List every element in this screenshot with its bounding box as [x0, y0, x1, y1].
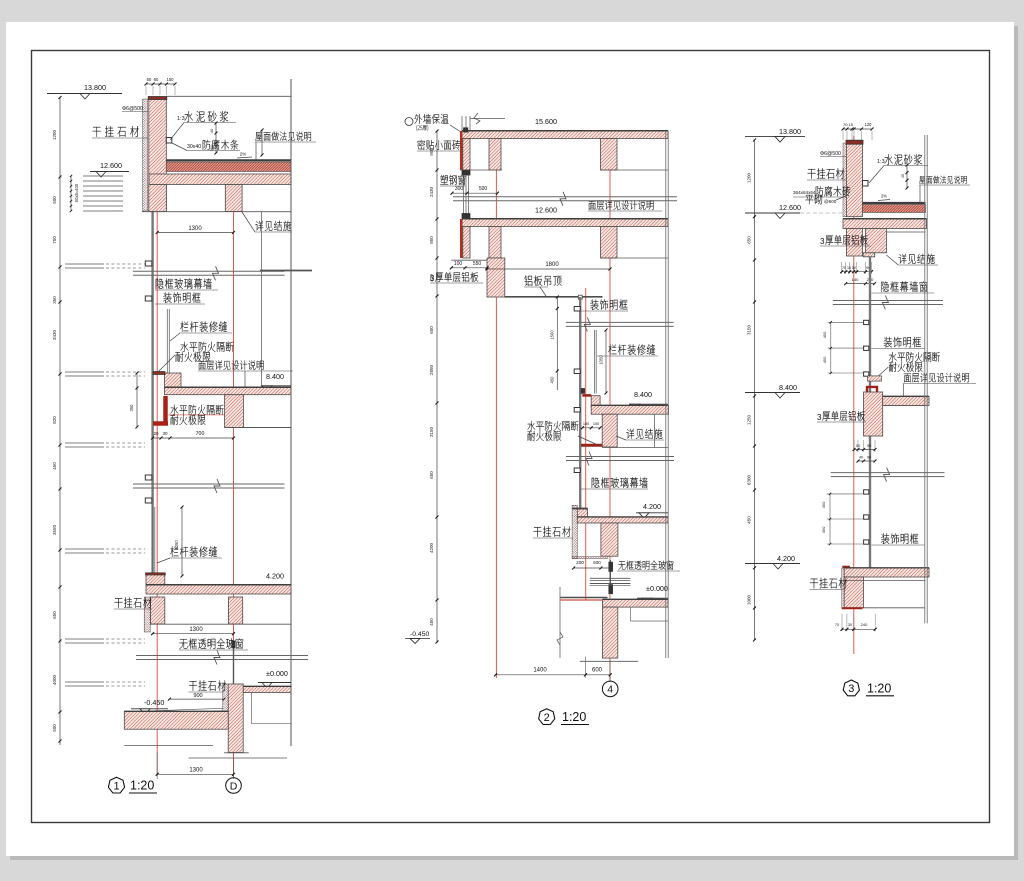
detail 2 window dims 200 600	[574, 567, 612, 569]
detail 2 break line lower	[566, 456, 674, 458]
svg-text:1800: 1800	[545, 262, 559, 268]
detail 2 mid wall left leaf	[463, 227, 470, 259]
svg-text:1300: 1300	[189, 768, 203, 774]
detail 1 roof slope mark	[237, 157, 252, 158]
svg-text:1: 1	[113, 780, 119, 792]
detail 2 right border double line	[665, 131, 667, 658]
detail 1 curtain wall mullion line	[151, 211, 153, 573]
svg-text:1200: 1200	[747, 172, 752, 183]
detail 2 upstand cap 4.200	[572, 508, 588, 510]
svg-text:450: 450	[821, 526, 826, 533]
detail 1 mullion brackets	[145, 261, 152, 266]
detail 2 title bubble 2	[539, 709, 555, 725]
detail 1 ground stone strip at column	[223, 684, 228, 711]
detail 1 roof downstand beam	[225, 185, 242, 212]
detail 1 interior floor recess lines	[250, 693, 252, 724]
svg-text:12.600: 12.600	[535, 206, 557, 215]
detail 3 label decorative frame lower	[881, 533, 889, 543]
detail 2 railing dim	[605, 330, 607, 393]
svg-text:600: 600	[593, 560, 601, 565]
detail 1 soil line under column	[224, 752, 249, 754]
detail 2 exterior red line	[560, 599, 602, 601]
detail 1 mid floor upstand	[165, 373, 182, 388]
detail 2 mullion base joint	[581, 388, 585, 393]
detail 2 bracket dim line	[556, 297, 558, 390]
svg-text:90: 90	[867, 456, 871, 460]
detail 2 bottom dim 1400 600	[585, 657, 587, 678]
detail 3 roof slope mark	[878, 200, 890, 201]
detail 3 label horizontal fire barrier	[889, 352, 897, 362]
detail 3 underside line 8.400	[883, 405, 926, 407]
detail 3 parapet top dims	[843, 128, 872, 130]
svg-text:550: 550	[473, 261, 482, 267]
detail 1 mid floor fire barrier red angle	[163, 396, 168, 425]
detail 1 mid floor downstand beam	[225, 395, 244, 428]
detail 2 upstand 4.200	[577, 509, 587, 518]
detail 2 red axis 1	[495, 131, 497, 678]
svg-text:300: 300	[455, 186, 464, 192]
detail 1 label horizontal fire barrier upper	[180, 342, 188, 352]
detail 2 label railing joint	[608, 344, 616, 354]
detail 3 beam bottom step	[863, 253, 875, 257]
detail 3 fire barrier mark	[868, 376, 882, 381]
detail 2 upstand cap red	[582, 394, 591, 397]
detail 2 soil line	[580, 660, 638, 662]
svg-text:4000: 4000	[52, 674, 57, 685]
detail 2 wall above roof break	[461, 116, 463, 131]
detail 3 stone block 4.200	[844, 577, 863, 608]
detail 3 edge beam 8.400	[864, 392, 883, 436]
detail 1 exterior ground slab	[124, 712, 228, 730]
detail 3 red axis	[853, 136, 855, 654]
detail 2 interior floor step lines	[590, 577, 631, 579]
detail 3 parapet wall	[846, 141, 862, 217]
svg-text:60: 60	[147, 77, 152, 82]
svg-text:@600: @600	[824, 199, 837, 204]
detail 2 label exterior wall insulation	[405, 118, 413, 126]
detail 2 ground column	[602, 607, 617, 658]
detail 2 roof wall tie square	[463, 128, 468, 133]
svg-text:1500: 1500	[550, 330, 555, 340]
detail 2 exterior boundary vline	[559, 587, 561, 658]
detail 2 slab 4.200	[577, 517, 668, 523]
detail 2 window frame upper	[463, 170, 465, 219]
detail 1 title bubble 1	[108, 777, 124, 793]
detail 2 label aluminum ceiling	[524, 275, 532, 285]
detail 2 interior wall line 8.400	[653, 414, 655, 447]
detail 3 curtain wall mullion	[869, 256, 871, 568]
svg-text:3150: 3150	[429, 426, 434, 437]
detail 1 ceiling line under roof	[142, 211, 291, 213]
detail 1 lower floor slab	[146, 585, 291, 594]
detail 1 label floor finish see design notes	[199, 361, 206, 370]
detail 3 label flat laid	[806, 195, 814, 204]
detail 2 beam 8.400	[602, 414, 617, 447]
detail 1 mid floor slab	[165, 388, 292, 395]
detail 1 lower ceiling line	[151, 623, 292, 625]
detail 2 grid bubble 4	[602, 681, 618, 697]
detail 3 dims below stone	[841, 614, 843, 632]
svg-text:900: 900	[193, 693, 202, 699]
svg-text:1050: 1050	[599, 355, 604, 365]
detail 3 label dry hung stone lower	[810, 579, 818, 589]
svg-text:650: 650	[429, 471, 434, 479]
svg-text:650: 650	[52, 611, 57, 619]
detail 2 dim 1800	[487, 268, 610, 270]
detail 1 mid floor underside line	[225, 427, 291, 429]
svg-text:450: 450	[52, 462, 57, 470]
svg-text:3550: 3550	[52, 524, 57, 535]
detail 3 parapet stone strip	[843, 143, 846, 217]
svg-text:2%: 2%	[240, 152, 247, 157]
detail 3 mullion brackets lower	[864, 490, 869, 494]
detail 2 upper beam	[601, 139, 618, 171]
detail 1 railing dim 1050	[181, 507, 183, 576]
detail 2 mid ceiling lines	[451, 259, 503, 261]
detail 2 break line mid	[566, 321, 674, 323]
detail 1 small vertical dim at cap	[215, 123, 217, 153]
detail 2 label hidden frame curtain wall	[592, 477, 600, 487]
detail 3 dims below beam row1	[841, 262, 843, 274]
detail 1 break line mid	[133, 483, 285, 485]
detail 2 mullion brackets	[574, 307, 580, 312]
detail 2 floor slab 12.600	[462, 219, 668, 227]
detail 3 underside line 4.200	[844, 580, 925, 582]
svg-text:450: 450	[822, 356, 827, 363]
svg-text:40: 40	[209, 128, 214, 133]
detail 2 dims 100 100 at barrier	[582, 427, 600, 429]
svg-text:8.400: 8.400	[266, 372, 284, 381]
svg-text:30: 30	[162, 431, 168, 436]
detail 1 label decorative frame upper	[163, 292, 171, 302]
detail 2 exterior grade line	[560, 597, 607, 599]
svg-text:650: 650	[747, 236, 752, 244]
svg-text:3: 3	[848, 683, 854, 695]
detail 1 lower wall stub	[151, 597, 165, 624]
svg-text:50: 50	[856, 444, 860, 448]
detail 1 glass window line	[233, 640, 235, 700]
svg-text:3150: 3150	[747, 324, 752, 335]
detail 1 exterior slope lines	[142, 708, 223, 711]
detail 3 label decorative frame	[884, 337, 892, 347]
svg-text:450: 450	[550, 376, 555, 384]
detail 2 stone edge 4.200	[572, 505, 577, 558]
svg-text:4.200: 4.200	[777, 554, 795, 563]
detail 3 slab 4.200	[844, 568, 929, 577]
detail 1 red axis B	[233, 174, 235, 777]
detail 2 label frameless glass window	[618, 561, 625, 569]
detail 3 bottom line to border	[863, 607, 926, 609]
svg-text:820: 820	[52, 416, 57, 424]
svg-text:650: 650	[429, 326, 434, 334]
detail 1 louver dim stack	[70, 176, 72, 211]
detail 1 mid floor upstand cap	[153, 372, 165, 375]
detail 2 left dim chain	[436, 131, 438, 643]
detail 3 roof insulation band	[863, 205, 926, 213]
detail 1 parapet top dims	[146, 83, 175, 85]
detail 1 parapet stone strip	[143, 99, 148, 211]
svg-text:12.600: 12.600	[779, 203, 801, 212]
svg-text:1:20: 1:20	[130, 779, 154, 793]
svg-text:-0.450: -0.450	[144, 698, 164, 707]
detail 2 label finish see design notes	[589, 201, 596, 210]
detail 2 label dry hung stone	[534, 527, 542, 537]
detail 1 dim 1300 at window	[153, 633, 234, 635]
svg-text:450: 450	[821, 501, 826, 508]
detail 2 glass window line	[609, 560, 611, 594]
detail 1 break line upper	[133, 270, 285, 272]
detail 3 roof top line	[863, 202, 926, 204]
svg-text:3: 3	[817, 413, 822, 422]
detail 2 label see structure	[626, 429, 634, 439]
svg-text:140: 140	[852, 277, 859, 282]
detail 1 label dry hung stone	[93, 127, 101, 137]
detail 2 red axis 3	[585, 288, 587, 600]
detail 3 break line lower	[831, 472, 945, 474]
detail 1 right border line	[290, 79, 292, 746]
svg-text:70,15: 70,15	[843, 122, 854, 127]
detail 1 chain floor marker lines	[65, 263, 104, 265]
svg-text:3430: 3430	[52, 329, 57, 340]
detail 1 label railing joint upper	[180, 321, 188, 331]
detail 3 stone strip 4.200	[842, 568, 844, 609]
svg-text:29: 29	[153, 431, 159, 436]
svg-text:850: 850	[429, 236, 434, 244]
svg-text:350: 350	[129, 404, 134, 412]
svg-text:450: 450	[747, 516, 752, 524]
detail 3 wall below cap	[846, 229, 862, 257]
svg-text:-0.450: -0.450	[410, 631, 429, 638]
detail 3 roof downstand beam	[866, 229, 887, 253]
detail 3 label finish see design notes	[904, 374, 911, 383]
svg-text:600: 600	[592, 668, 603, 674]
svg-text:100: 100	[583, 422, 589, 426]
svg-text:500: 500	[479, 186, 488, 192]
svg-text:4200: 4200	[429, 542, 434, 553]
svg-text:4.200: 4.200	[643, 502, 661, 511]
detail 2 upper ceiling lines	[460, 169, 502, 171]
detail 3 dims below edge beam	[853, 440, 855, 452]
detail 3 dims below beam row2	[846, 283, 875, 285]
detail 1 vertical dim left of upstand	[136, 373, 138, 427]
svg-text:500: 500	[52, 724, 57, 732]
svg-text:40: 40	[901, 174, 905, 178]
detail 1 label dry hung stone at ground	[189, 681, 197, 691]
svg-text:120: 120	[865, 122, 873, 127]
svg-text:500: 500	[52, 196, 57, 204]
detail 2 window dim 300 500	[452, 192, 497, 194]
detail 2 fire barrier red 8.400	[581, 444, 602, 447]
svg-text:70: 70	[835, 623, 839, 627]
svg-text:1400: 1400	[533, 668, 547, 674]
svg-text:3: 3	[820, 237, 825, 246]
detail 1 ground column	[228, 684, 243, 753]
detail 2 upper wall left leaf	[463, 139, 470, 171]
detail 2 dim 100 550	[451, 267, 487, 269]
detail 3 label roofing see notes	[919, 176, 925, 183]
svg-text:1:3: 1:3	[877, 159, 885, 165]
svg-text:450: 450	[822, 331, 827, 338]
detail 3 label hidden frame window	[881, 281, 889, 291]
detail 1 parapet bracket	[166, 138, 172, 144]
svg-text:350: 350	[52, 296, 57, 304]
detail 1 grid bubble D	[226, 778, 242, 794]
detail 3 bracket dims lower	[829, 494, 831, 543]
svg-text:90: 90	[867, 444, 871, 448]
svg-text:60: 60	[154, 77, 159, 82]
svg-text:4: 4	[607, 684, 613, 696]
svg-text:1:20: 1:20	[867, 681, 891, 695]
svg-text:100: 100	[454, 261, 463, 267]
svg-text:40: 40	[859, 456, 863, 460]
svg-text:D: D	[230, 780, 238, 792]
svg-text:1200: 1200	[52, 129, 57, 140]
detail 2 ground slab	[602, 600, 668, 608]
detail 1 red axis A	[156, 97, 158, 774]
svg-text:4.200: 4.200	[266, 572, 284, 581]
svg-text:±0.000: ±0.000	[266, 669, 288, 678]
detail 2 mid wall red face	[460, 219, 462, 258]
detail 3 stone block bottom red	[842, 607, 863, 609]
svg-text:150: 150	[167, 77, 175, 82]
detail 3 small vertical dim	[906, 165, 908, 188]
svg-text:±0.000: ±0.000	[646, 584, 668, 593]
detail 1 lower floor upstand	[146, 574, 165, 587]
detail 1 chain ticks	[59, 96, 62, 99]
svg-text:240: 240	[861, 622, 868, 627]
detail 1 label hidden frame glass curtain wall	[156, 278, 164, 288]
svg-text:8.400: 8.400	[634, 390, 652, 399]
svg-text:2430: 2430	[429, 186, 434, 197]
detail 2 upper wall right leaf	[489, 139, 501, 171]
svg-text:1000: 1000	[747, 594, 752, 605]
detail 1 dim 900	[169, 698, 224, 700]
svg-text:50x8=400: 50x8=400	[74, 183, 79, 202]
svg-text:Φ6@500: Φ6@500	[820, 151, 841, 157]
detail 3 upstand cap red 8.400	[867, 387, 877, 392]
svg-text:700: 700	[196, 431, 205, 437]
detail 3 label dry hung stone	[808, 169, 816, 179]
detail 1 lower railing post	[152, 507, 154, 576]
svg-text:364x64x64: 364x64x64	[793, 190, 816, 195]
svg-text:3: 3	[430, 274, 435, 283]
detail 2 interior recess lines	[629, 607, 631, 621]
detail 2 slab 8.400	[591, 406, 668, 415]
detail 1 upper railing post	[166, 309, 168, 374]
detail 1 label frameless glass window	[179, 639, 187, 649]
svg-text:200: 200	[576, 560, 584, 565]
detail 3 ceiling line under roof	[886, 231, 925, 233]
detail 1 label railing joint lower	[170, 546, 178, 556]
detail 1 label dry hung stone lower	[115, 598, 123, 608]
detail 1 label see structure (roof)	[255, 221, 263, 231]
svg-text:15.600: 15.600	[535, 117, 557, 126]
svg-text:30: 30	[848, 623, 852, 627]
detail 2 curtain wall mullion	[579, 297, 581, 509]
detail 3 label see structure	[899, 254, 907, 264]
detail 1 interior wall line upper	[261, 212, 263, 388]
detail 2 roof slab 15.600	[462, 131, 668, 139]
svg-text:1050: 1050	[174, 540, 179, 550]
detail 3 mullion brackets upper	[864, 320, 869, 324]
svg-text:750: 750	[52, 236, 57, 244]
svg-text:2: 2	[544, 712, 550, 724]
svg-text:Φ6@500: Φ6@500	[122, 106, 143, 112]
detail 2 label plastic-steel window	[440, 175, 448, 184]
svg-text:12.600: 12.600	[100, 161, 122, 170]
detail 1 exterior ground lower line	[124, 745, 213, 747]
detail 2 red axis 2	[609, 131, 611, 681]
detail 1 left elevation dim chain line	[59, 97, 61, 745]
detail 1 label roofing see notes	[255, 132, 262, 141]
svg-text:13.800: 13.800	[84, 83, 106, 92]
svg-text:1250: 1250	[747, 414, 752, 425]
svg-text:6300: 6300	[747, 474, 752, 485]
detail 2 stone soffit dots	[572, 556, 607, 559]
detail 2 label horizontal fire barrier	[527, 421, 535, 431]
detail 1 roof top line	[166, 159, 291, 161]
detail 1 wall below cap	[149, 185, 167, 212]
detail 1 roof insulation band	[166, 162, 291, 172]
detail 2 break line top	[453, 196, 677, 198]
detail 1 lower downstand beam	[228, 597, 242, 624]
detail 2 suspended ceiling line	[505, 296, 603, 298]
detail 2 label decorative frame	[590, 299, 598, 309]
detail 2 beam 4.200	[601, 523, 618, 556]
svg-text:30x40: 30x40	[187, 144, 201, 150]
detail 1 thick balcony line above break	[260, 270, 312, 272]
detail 2 railing post	[593, 330, 595, 394]
detail 3 left dim chain	[754, 140, 756, 640]
detail 1 parapet cap	[148, 97, 167, 100]
svg-text:100: 100	[593, 422, 599, 426]
svg-text:8.400: 8.400	[779, 383, 797, 392]
detail 3 slab 8.400	[883, 397, 929, 406]
svg-text:1:20: 1:20	[562, 710, 586, 724]
detail 1 break line lower	[136, 655, 308, 657]
detail 1 roof structural slab	[149, 174, 291, 185]
detail 2 upper wall red face	[460, 131, 462, 170]
detail 1 label horizontal fire barrier lower	[170, 405, 178, 415]
detail 2 label close-laid small tiles	[417, 140, 425, 150]
detail 1 dim 1300 below roof	[157, 232, 233, 234]
detail 3 break line upper	[833, 300, 943, 302]
svg-text:1300: 1300	[189, 627, 203, 633]
detail 1 top horizontal line	[166, 95, 291, 97]
detail 3 parapet bracket	[863, 181, 869, 187]
svg-text:13.800: 13.800	[779, 127, 801, 136]
svg-text:1:3: 1:3	[177, 116, 185, 122]
detail 3 right border double line	[924, 135, 926, 623]
detail 1 lower stone cladding strip	[144, 597, 150, 632]
detail 2 underside line 8.400	[602, 447, 668, 449]
detail 2 balcony edge column	[487, 258, 505, 297]
detail 1 lower floor upstand cap	[146, 573, 166, 575]
detail 2 mid wall right leaf	[489, 227, 501, 259]
svg-text:1300: 1300	[188, 226, 202, 232]
detail 1 dim row below upstand	[153, 437, 234, 439]
detail 3 roof structural slab	[843, 219, 927, 229]
detail 2 upstand 8.400	[591, 396, 600, 408]
detail 1 bottom dim 1300	[156, 752, 158, 779]
svg-text:450: 450	[429, 618, 434, 626]
svg-text:70 15 50: 70 15 50	[842, 266, 856, 270]
detail 1 parapet wall	[149, 97, 167, 212]
detail 3 bracket dims upper	[830, 322, 832, 373]
detail 3 title bubble 3	[843, 680, 859, 696]
detail 2 mid beam	[601, 227, 618, 259]
detail 3 parapet cap	[846, 140, 863, 144]
